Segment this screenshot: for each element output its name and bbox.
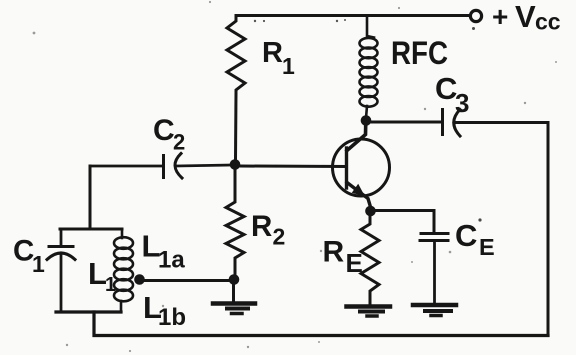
label C2 bbox=[153, 114, 185, 155]
ground under RE bbox=[347, 307, 391, 317]
transistor Q1 bbox=[333, 121, 390, 207]
svg-text:1a: 1a bbox=[158, 247, 185, 274]
svg-text:C: C bbox=[153, 114, 175, 147]
node L1 tap bbox=[134, 274, 145, 285]
inductor L1 bbox=[114, 229, 133, 312]
capacitor C1 bbox=[47, 229, 75, 312]
svg-text:E: E bbox=[479, 234, 495, 260]
label RE bbox=[323, 236, 363, 278]
svg-text:E: E bbox=[346, 248, 363, 278]
node collector junction bbox=[361, 115, 372, 126]
wire tank top rail bbox=[60, 228, 122, 231]
wire collector node to C3 bbox=[370, 121, 442, 124]
node R2 ground junction bbox=[229, 274, 240, 285]
label R2 bbox=[251, 210, 285, 250]
label CE bbox=[455, 218, 495, 260]
node A base junction bbox=[230, 159, 241, 170]
svg-text:C: C bbox=[455, 218, 477, 253]
svg-text:+: + bbox=[492, 1, 508, 32]
capacitor C3 bbox=[443, 110, 461, 137]
wire C2 corner down to tank bbox=[89, 166, 92, 229]
svg-text:1: 1 bbox=[282, 53, 295, 79]
label C1 bbox=[13, 235, 45, 277]
label C3 bbox=[435, 71, 469, 118]
label +Vcc bbox=[492, 0, 561, 35]
svg-text:cc: cc bbox=[535, 9, 561, 35]
svg-text:V: V bbox=[515, 0, 536, 34]
resistor R2 bbox=[226, 169, 244, 275]
svg-text:2: 2 bbox=[173, 130, 185, 155]
svg-text:2: 2 bbox=[273, 224, 286, 250]
wire tank bottom rail bbox=[56, 310, 121, 313]
svg-text:3: 3 bbox=[455, 88, 469, 118]
svg-text:1: 1 bbox=[32, 251, 45, 277]
svg-text:1b: 1b bbox=[158, 304, 186, 331]
terminal +Vcc bbox=[470, 10, 481, 21]
svg-text:R: R bbox=[251, 210, 272, 243]
capacitor C2 bbox=[90, 154, 231, 179]
svg-text:RFC: RFC bbox=[391, 35, 448, 71]
resistor RE bbox=[361, 216, 379, 304]
label L1a bbox=[142, 229, 186, 274]
ground under CE bbox=[413, 305, 456, 316]
label L1 bbox=[88, 256, 116, 296]
wire tap to R2 node bbox=[144, 279, 229, 282]
wire Vcc top rail bbox=[236, 14, 469, 17]
ground under R2 bbox=[213, 284, 255, 314]
resistor R1 bbox=[227, 16, 245, 95]
inductor RFC bbox=[360, 16, 378, 119]
svg-text:R: R bbox=[262, 37, 283, 69]
capacitor CE bbox=[420, 234, 448, 304]
svg-text:R: R bbox=[323, 236, 345, 269]
wire emitter to CE bbox=[375, 211, 434, 233]
wire C3 to right edge bbox=[455, 123, 548, 336]
wire base bbox=[240, 165, 346, 169]
label R1 bbox=[262, 37, 295, 79]
label L1b bbox=[143, 290, 186, 331]
wire R1 to node A bbox=[234, 93, 238, 160]
wire bottom rail bbox=[94, 312, 548, 336]
node emitter junction bbox=[365, 206, 376, 217]
svg-text:1: 1 bbox=[105, 274, 116, 296]
